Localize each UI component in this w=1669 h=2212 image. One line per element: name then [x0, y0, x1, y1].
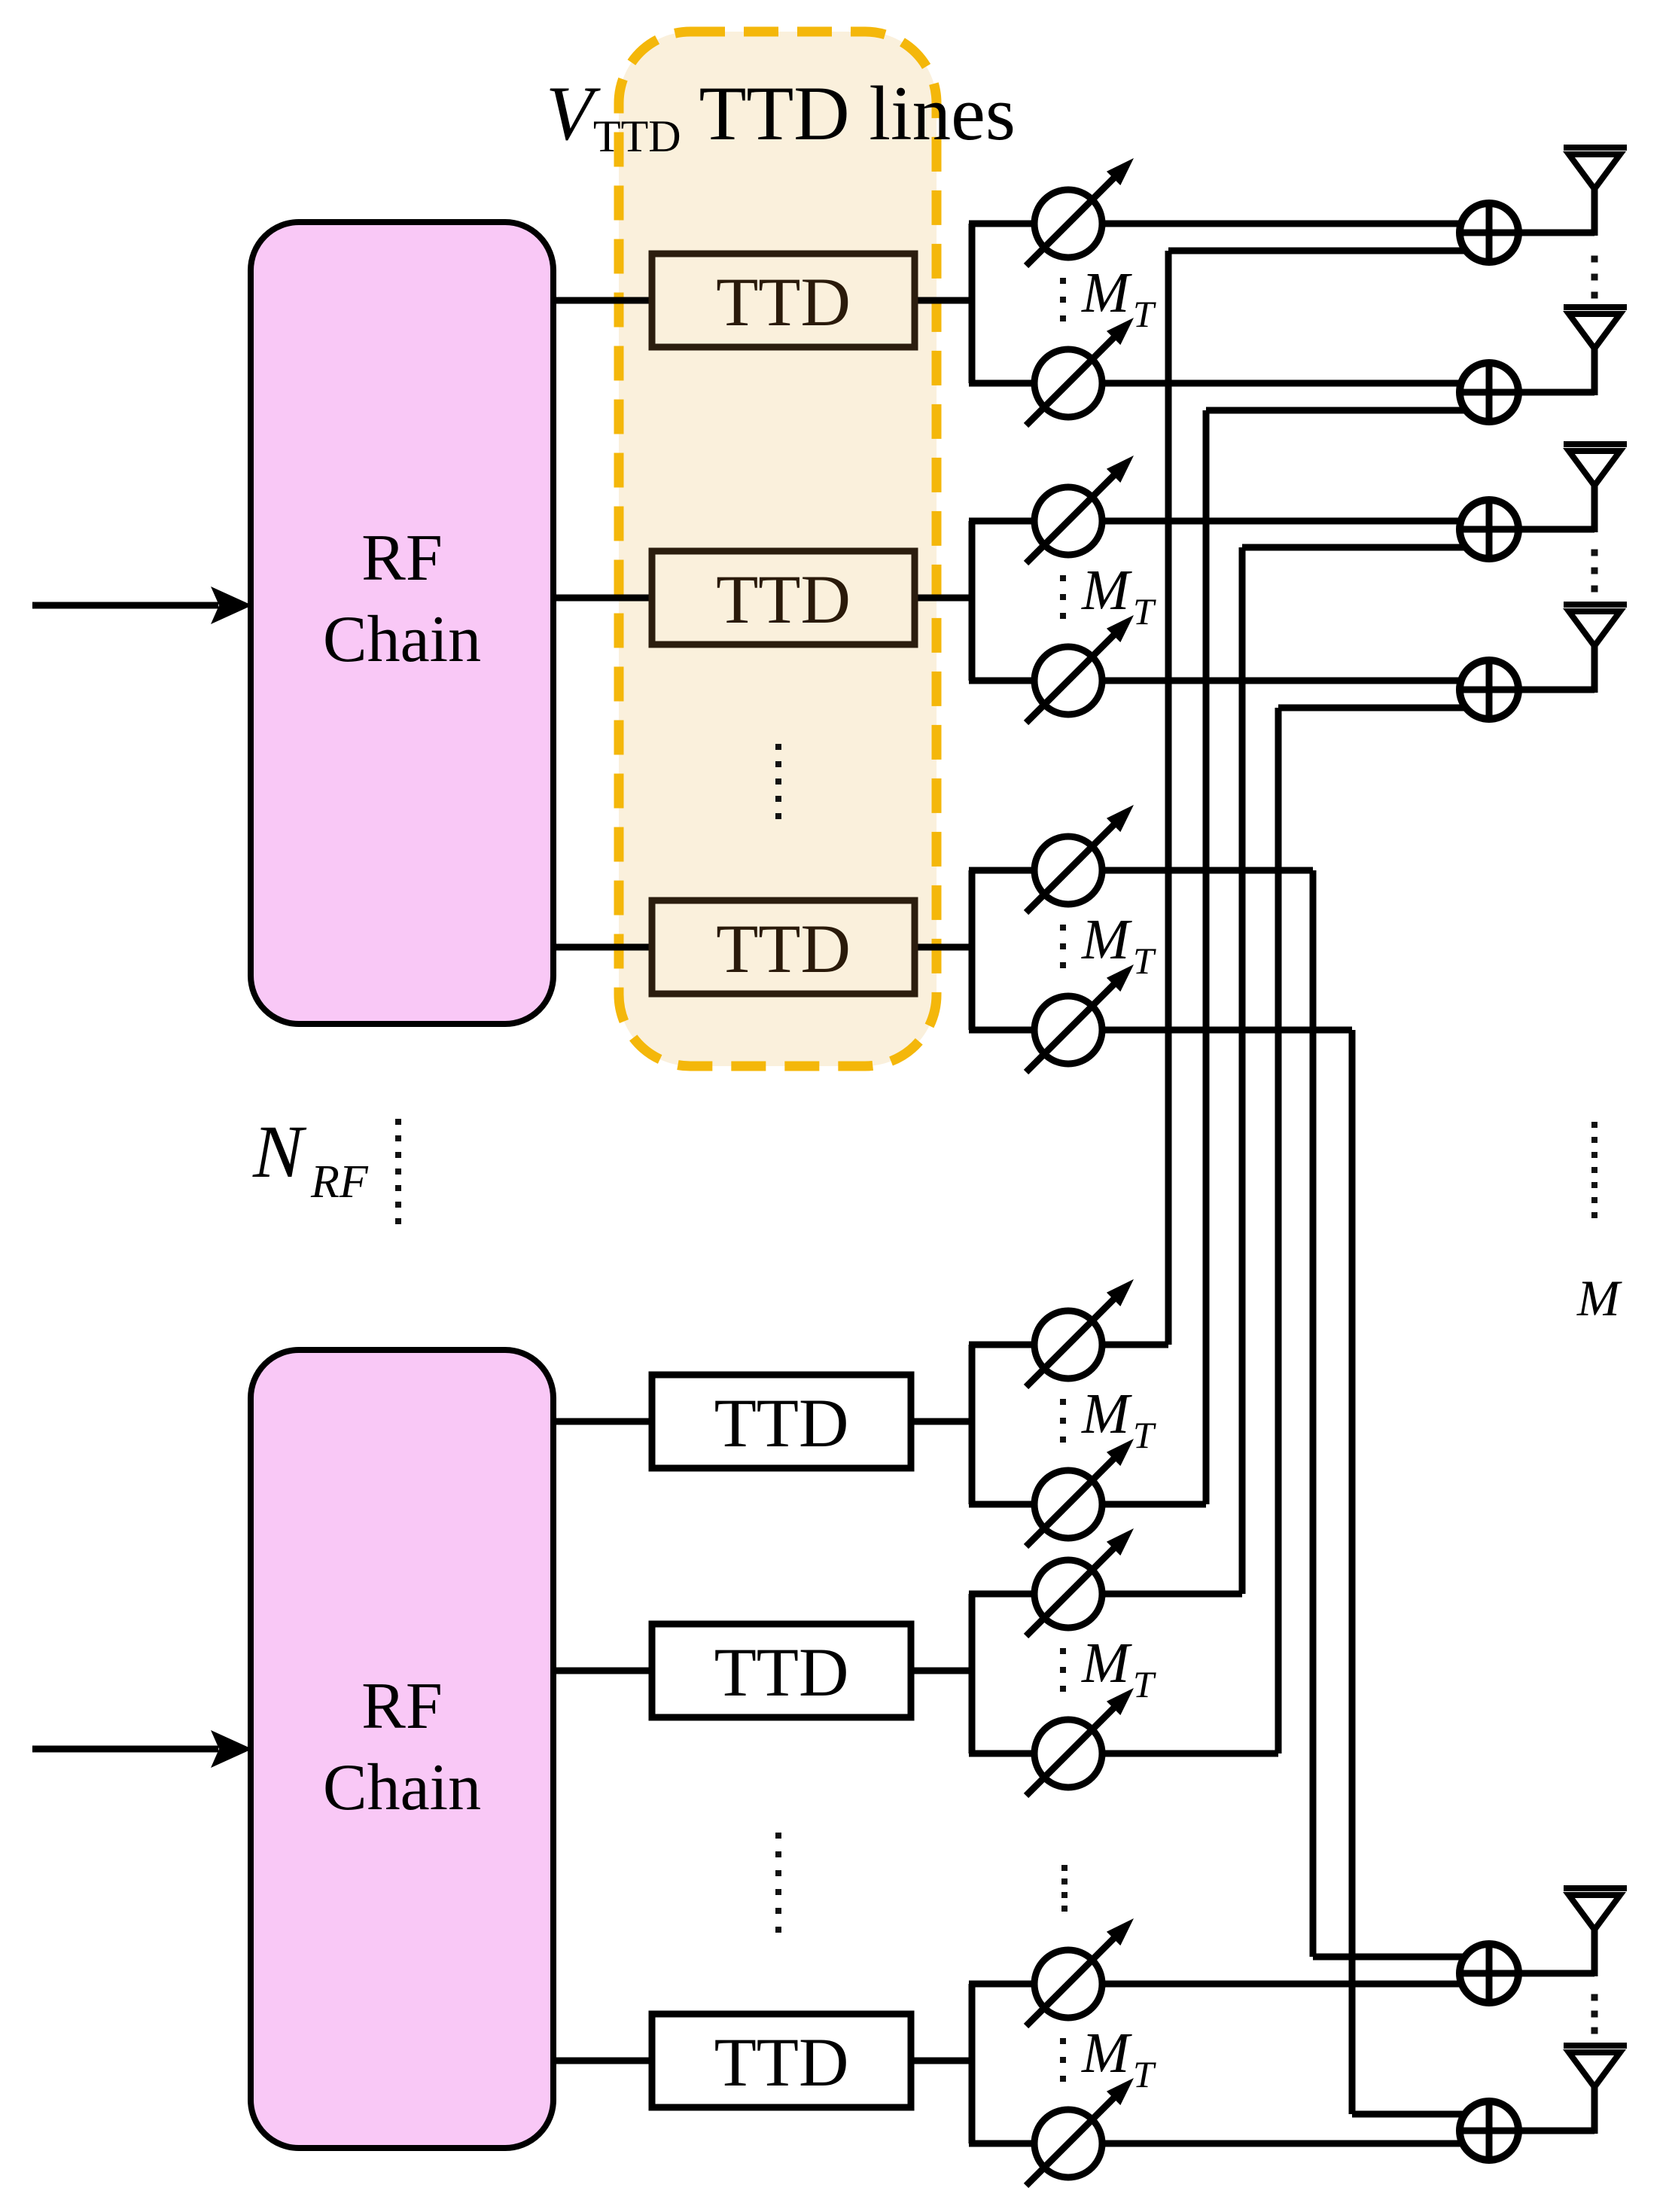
wire vertical bus 5 to adder S5 [1313, 870, 1468, 1957]
svg-text:M: M [1081, 261, 1132, 324]
wire branch 2 TTD feed and splitter [552, 521, 1068, 681]
wire vertical bus 2 to adder S2 [1206, 410, 1468, 1504]
wire PS2a out to adder S3 [1068, 518, 1468, 525]
wire branch 4 TTD feed and splitter [552, 1345, 1068, 1504]
RF Chain block 2 [251, 1350, 553, 2148]
TTD block 3 [652, 900, 915, 994]
phase shifter PS1a [1026, 158, 1134, 266]
RF Chain block 1 [251, 222, 553, 1024]
label M antennas count [1576, 1269, 1622, 1327]
phase shifter PS4a [1026, 1279, 1134, 1387]
label N_RF [252, 1110, 369, 1208]
label M_T branch 4 [1060, 1382, 1156, 1456]
wire vertical bus 3 to adder S3 [1242, 547, 1468, 1594]
dots between PS group 5 and 6 [1061, 1865, 1067, 1912]
wire adder S2 output to antenna 2 [1513, 349, 1594, 395]
phase shifter PS3b [1026, 964, 1134, 1072]
wire PS1a out to adder S1 [1068, 221, 1468, 227]
svg-text:M: M [1081, 559, 1132, 622]
antenna 1 [1564, 148, 1627, 189]
label M_T branch 1 [1060, 261, 1156, 335]
label M_T branch 3 [1060, 908, 1156, 982]
svg-text:Chain: Chain [323, 603, 481, 676]
wire PS4a out to bus 1 [1068, 1342, 1168, 1348]
wire PS6a out to adder S5 [1068, 1981, 1468, 1988]
wire branch 5 TTD feed and splitter [552, 1594, 1068, 1753]
svg-text:TTD: TTD [716, 264, 851, 340]
svg-text:TTD: TTD [714, 1634, 849, 1711]
label M_T branch 6 [1060, 2022, 1156, 2095]
svg-text:M: M [1081, 2022, 1132, 2085]
TTD block 5 [652, 1624, 911, 1717]
svg-text:M: M [1081, 1632, 1132, 1695]
TTD block 1 [652, 254, 915, 347]
TTD lines dashed region V_TTD [619, 32, 937, 1066]
antenna 4 [1564, 605, 1627, 646]
svg-text:T: T [1133, 590, 1156, 632]
adder S3 [1460, 500, 1518, 559]
wire vertical bus 6 to adder S6 [1352, 1030, 1468, 2114]
phase shifter PS5a [1026, 1528, 1134, 1636]
input arrow 1 into RF chain [32, 587, 252, 624]
wire branch 3 TTD feed and splitter [552, 870, 1068, 1030]
wire PS2b out to adder S4 [1068, 678, 1468, 684]
antenna 3 [1564, 444, 1627, 486]
phase shifter PS3a [1026, 805, 1134, 913]
dots right antenna column middle [1591, 1122, 1597, 1218]
svg-text:TTD: TTD [716, 910, 851, 987]
dots between TTD 2 and TTD 3 [775, 744, 781, 819]
wire PS3b out to bus 6 [1068, 1027, 1352, 1034]
wire PS1b out to adder S2 [1068, 380, 1468, 387]
svg-text:TTD: TTD [716, 561, 851, 638]
phase shifter PS2a [1026, 456, 1134, 563]
TTD block 2 [652, 551, 915, 644]
svg-text:T: T [1133, 940, 1156, 982]
svg-text:TTD: TTD [714, 1385, 849, 1461]
phase shifter PS6b [1026, 2078, 1134, 2186]
svg-text:Chain: Chain [323, 1751, 481, 1824]
wire branch 6 TTD feed and splitter [552, 1984, 1068, 2143]
wire adder S1 output to antenna 1 [1513, 189, 1594, 236]
svg-text:T: T [1133, 1663, 1156, 1705]
svg-text:N: N [252, 1110, 307, 1193]
dots N_RF column [395, 1119, 401, 1224]
dots between antenna 1 and 2 [1591, 256, 1598, 299]
TTD block 6 [652, 2014, 911, 2107]
wire PS3a out to bus 5 [1068, 867, 1313, 874]
wire PS4b out to bus 2 [1068, 1501, 1206, 1508]
wire PS6b out to adder S6 [1068, 2140, 1468, 2147]
wire vertical bus 1 to adder S1 [1168, 251, 1468, 1345]
wire adder S6 output to antenna 6 [1513, 2087, 1594, 2134]
input arrow 2 into RF chain [32, 1730, 252, 1768]
svg-text:T: T [1133, 1414, 1156, 1456]
phase shifter PS1b [1026, 318, 1134, 425]
label M_T branch 2 [1060, 559, 1156, 632]
phase shifter PS6a [1026, 1918, 1134, 2026]
label M_T branch 5 [1060, 1632, 1156, 1705]
phase shifter PS5b [1026, 1688, 1134, 1796]
phase shifter PS4b [1026, 1439, 1134, 1546]
adder S4 [1460, 660, 1518, 719]
phase shifter PS2b [1026, 615, 1134, 723]
antenna 2 [1564, 307, 1627, 349]
dots between antenna 3 and 4 [1591, 550, 1598, 593]
svg-text:TTD: TTD [714, 2024, 849, 2101]
wire branch 1 TTD feed and splitter [552, 224, 1068, 383]
wire PS5a out to bus 3 [1068, 1591, 1242, 1598]
svg-text:T: T [1133, 293, 1156, 335]
adder S1 [1460, 203, 1518, 262]
svg-text:RF: RF [310, 1156, 369, 1208]
wire vertical bus 4 to adder S4 [1278, 708, 1468, 1753]
dots between antenna 5 and 6 [1591, 1994, 1598, 2034]
svg-text:M: M [1081, 1382, 1132, 1446]
label V_TTD TTD lines [546, 71, 1016, 161]
adder S5 [1460, 1944, 1518, 2003]
adder S2 [1460, 363, 1518, 422]
svg-text:M: M [1576, 1269, 1622, 1327]
antenna 6 [1564, 2046, 1627, 2087]
wire PS5b out to bus 4 [1068, 1750, 1278, 1757]
dots between TTD 5 and TTD 6 [775, 1833, 781, 1933]
wire adder S4 output to antenna 4 [1513, 646, 1594, 693]
antenna 5 [1564, 1888, 1627, 1930]
svg-text:RF: RF [361, 1670, 443, 1743]
wire adder S3 output to antenna 3 [1513, 486, 1594, 532]
TTD block 4 [652, 1375, 911, 1468]
adder S6 [1460, 2101, 1518, 2160]
wire adder S5 output to antenna 5 [1513, 1930, 1594, 1976]
svg-text:RF: RF [361, 522, 443, 595]
svg-text:M: M [1081, 908, 1132, 971]
svg-text:T: T [1133, 2053, 1156, 2095]
